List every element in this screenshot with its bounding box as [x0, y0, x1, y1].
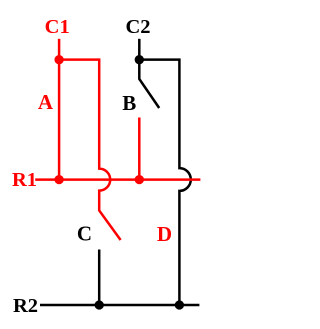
- wire: red stub from contact B lower terminal to R1: [138, 118, 141, 180]
- wire: branch A vertical (red) from C1 to R1: [58, 60, 61, 180]
- svg-text:R2: R2: [13, 295, 38, 317]
- junction dot R1-A: [54, 175, 63, 184]
- junction dot R2-D: [175, 300, 184, 309]
- junction dot R1-B: [135, 175, 144, 184]
- junction dot C2: [135, 55, 144, 64]
- svg-text:A: A: [38, 90, 54, 114]
- junction dot C1: [54, 55, 63, 64]
- wire: red branch from C1 right corner down through hop to contact C blade: [59, 60, 121, 240]
- wire: black branch from C2 right corner down through hop to R2: [139, 60, 190, 305]
- svg-text:C: C: [77, 222, 92, 246]
- wire: R1 rail (red): [35, 178, 200, 181]
- wire: R2 rail (black): [40, 304, 199, 307]
- wire: black stub from contact C lower terminal to R2: [98, 250, 101, 306]
- contact B blade (black) from C2 node: [139, 60, 159, 108]
- wire: lead from C1 label to junction (red): [58, 39, 61, 60]
- svg-text:D: D: [157, 222, 172, 246]
- junction dot R2-C: [95, 300, 104, 309]
- svg-text:C2: C2: [125, 16, 150, 38]
- wire: lead from C2 label to junction (black): [138, 39, 141, 60]
- svg-text:C1: C1: [45, 16, 70, 38]
- svg-text:R1: R1: [12, 169, 37, 191]
- svg-text:B: B: [122, 91, 136, 115]
